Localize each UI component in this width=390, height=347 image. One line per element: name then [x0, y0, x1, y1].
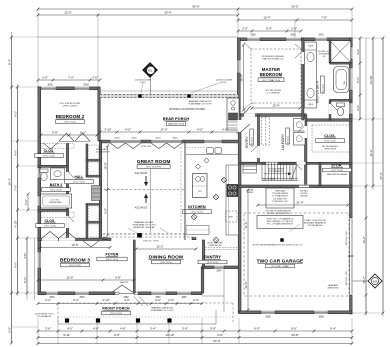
svg-text:(10'-0" CLG): (10'-0" CLG)	[106, 259, 118, 261]
svg-text:3'-6": 3'-6"	[45, 326, 51, 330]
light fixture symbol	[221, 177, 227, 183]
svg-text:2'-10": 2'-10"	[102, 298, 109, 302]
svg-text:2'-2": 2'-2"	[45, 298, 51, 302]
svg-text:2'-6": 2'-6"	[42, 75, 48, 79]
svg-text:WALLS FOR TRAY CLG: WALLS FOR TRAY CLG	[263, 58, 284, 61]
hall closet wall 4	[86, 222, 100, 224]
svg-text:5'-0": 5'-0"	[24, 199, 28, 205]
vault arrow 2 (up)	[145, 196, 147, 203]
door hall/foyer	[83, 241, 99, 247]
master bath bottom wall	[306, 119, 352, 121]
svg-text:REF.: REF.	[229, 217, 234, 219]
svg-text:4'-0": 4'-0"	[197, 127, 203, 131]
wc west wall	[329, 100, 331, 120]
svg-text:54'-0": 54'-0"	[192, 4, 199, 8]
svg-text:HALL: HALL	[75, 175, 84, 179]
svg-text:3'-10": 3'-10"	[104, 127, 111, 131]
kitchen wall counter	[226, 165, 238, 235]
svg-text:12'-0": 12'-0"	[71, 243, 78, 247]
garage top wall opening	[299, 185, 309, 188]
tub window	[349, 68, 353, 90]
svg-text:10" TREAD WIDTH: 10" TREAD WIDTH	[272, 195, 288, 198]
master width dim	[252, 107, 300, 109]
pantry shelf dashed	[205, 247, 238, 249]
porch post B	[96, 318, 100, 322]
garage top wall	[239, 185, 352, 188]
svg-text:(9'-0" CLG): (9'-0" CLG)	[51, 190, 62, 192]
svg-text:7'-8": 7'-8"	[321, 15, 327, 19]
svg-text:10'-10": 10'-10"	[166, 333, 175, 337]
bedroom2 top wall	[38, 87, 100, 90]
refrigerator dashed	[226, 211, 238, 222]
svg-text:3050: 3050	[83, 84, 89, 87]
svg-text:F.F.L. OF MAIN RESIDENCE: F.F.L. OF MAIN RESIDENCE	[267, 223, 294, 226]
extension lines right	[359, 38, 361, 120]
svg-text:3068: 3068	[318, 317, 324, 319]
garage front window 2	[314, 310, 328, 314]
bedroom3 left dims	[26, 238, 28, 293]
porch post A	[65, 318, 69, 322]
svg-text:A03: A03	[373, 280, 378, 283]
svg-text:54'-0": 54'-0"	[213, 339, 220, 343]
kitchen can lights	[204, 158, 209, 163]
beam above dashed	[103, 233, 196, 235]
svg-text:12'-0": 12'-0"	[64, 10, 71, 14]
svg-text:21'-4": 21'-4"	[296, 200, 303, 204]
svg-text:ALL WD SHELVES: ALL WD SHELVES	[322, 145, 338, 148]
svg-text:LAUNDRY: LAUNDRY	[281, 133, 285, 150]
kitchen/great room boundary	[183, 141, 185, 240]
bedroom2 window dims	[38, 79, 100, 81]
porch roof dashed	[58, 302, 233, 304]
svg-text:11'-2": 11'-2"	[244, 221, 248, 228]
svg-text:5'-4": 5'-4"	[266, 26, 272, 30]
svg-text:BEAM ABV. (SEE NOTE): BEAM ABV. (SEE NOTE)	[189, 100, 212, 103]
svg-text:FOYER: FOYER	[106, 253, 119, 257]
svg-text:ENTRY: ENTRY	[245, 136, 249, 148]
dining width dim	[136, 248, 196, 250]
porch entry door	[238, 120, 242, 132]
svg-text:20'-4": 20'-4"	[164, 10, 171, 14]
garage front window 1	[261, 310, 275, 314]
svg-text:(9'-0" CLG HT): (9'-0" CLG HT)	[146, 167, 161, 169]
garage right dims	[365, 186, 367, 313]
svg-text:20'-0": 20'-0"	[291, 4, 298, 8]
svg-text:5'-6": 5'-6"	[182, 326, 188, 330]
svg-text:4 PED. DRS: 4 PED. DRS	[141, 146, 152, 148]
svg-text:8'-4": 8'-4"	[7, 59, 11, 65]
svg-text:(SEE NOTE): (SEE NOTE)	[328, 288, 339, 290]
svg-text:BEAM ABV. HDR ABV.: BEAM ABV. HDR ABV.	[134, 221, 154, 224]
dining front window 1	[151, 291, 166, 295]
svg-text:6'-6": 6'-6"	[291, 326, 297, 330]
svg-text:3'-8": 3'-8"	[210, 326, 216, 330]
svg-text:(9'-0" CLG): (9'-0" CLG)	[192, 212, 203, 214]
svg-text:4'-0": 4'-0"	[356, 105, 360, 111]
closet shelf dashed top	[312, 124, 350, 126]
svg-text:(9'-0" CLG): (9'-0" CLG)	[44, 156, 55, 158]
svg-text:3050: 3050	[181, 297, 187, 299]
svg-text:(TYP): (TYP)	[140, 82, 146, 84]
column 6x6 great room	[137, 233, 142, 238]
svg-text:ADEQUATE HEADRM AT: ADEQUATE HEADRM AT	[304, 222, 327, 225]
bottom overall dim	[38, 343, 352, 345]
svg-text:47'-4": 47'-4"	[379, 172, 383, 179]
svg-text:13 EQUAL RISERS: 13 EQUAL RISERS	[272, 192, 289, 195]
entry laundry top wall / master bottom	[238, 114, 306, 117]
svg-text:3'-0": 3'-0"	[124, 298, 130, 302]
svg-text:TOTAL RISE 7 7/8": TOTAL RISE 7 7/8"	[272, 200, 288, 203]
svg-text:2'-6": 2'-6"	[291, 26, 297, 30]
svg-text:(10'-0" TRAY CLG): (10'-0" TRAY CLG)	[262, 79, 281, 82]
svg-text:OUTLINE OF STAIRS ABOVE: OUTLINE OF STAIRS ABOVE	[265, 210, 291, 213]
extension lines bottom	[37, 318, 39, 344]
ext line	[18, 165, 39, 167]
master interior dim	[243, 45, 245, 110]
hall west wall	[66, 141, 68, 239]
svg-text:6X6 COL. (TYP.): 6X6 COL. (TYP.)	[143, 240, 159, 242]
rear wall great room/kitchen	[100, 140, 240, 143]
svg-text:3 EQUAL: 3 EQUAL	[246, 189, 253, 192]
entry steps to garage	[243, 162, 257, 164]
bedroom3 side window	[37, 252, 41, 268]
shower window	[349, 47, 353, 59]
svg-text:3050: 3050	[156, 138, 162, 140]
section marker 601 top	[143, 63, 158, 78]
svg-text:PLMB BEAM CUT TO FIT: PLMB BEAM CUT TO FIT	[188, 103, 212, 106]
attic outline dashed	[244, 213, 349, 296]
svg-text:FRONT PORCH: FRONT PORCH	[102, 307, 130, 311]
svg-text:7'-0": 7'-0"	[68, 75, 74, 79]
freestanding tub	[334, 67, 350, 93]
svg-text:BEDROOM: BEDROOM	[260, 72, 283, 77]
garage front wall	[239, 311, 352, 314]
svg-text:BEAM ABV: BEAM ABV	[328, 284, 338, 287]
garage interior dim	[247, 190, 249, 310]
bedroom2 right wall	[98, 87, 100, 141]
rear porch beam (dashed)	[100, 94, 238, 98]
svg-text:6'-8": 6'-8"	[114, 333, 120, 337]
corner shower	[330, 41, 351, 63]
svg-text:(9-0 CLG): (9-0 CLG)	[252, 137, 254, 146]
pantry window	[214, 265, 224, 269]
tray corner diagonal NW	[244, 43, 251, 50]
entry/laundry divider	[258, 115, 260, 163]
svg-text:5'-6": 5'-6"	[23, 277, 27, 283]
wall	[202, 240, 204, 267]
svg-text:9'-0": 9'-0"	[103, 208, 107, 214]
garage beam post	[280, 238, 283, 241]
svg-text:10'-0": 10'-0"	[103, 162, 107, 169]
section line through great room	[150, 169, 152, 233]
section marker A03 right	[352, 280, 368, 282]
svg-text:2'-6": 2'-6"	[155, 298, 161, 302]
svg-text:2650: 2650	[250, 35, 256, 37]
hall closet shelf wall	[86, 160, 100, 162]
bedroom3 front window 2	[75, 291, 89, 295]
svg-text:5'-8": 5'-8"	[115, 275, 121, 279]
svg-text:13'-10": 13'-10"	[369, 76, 373, 85]
svg-text:CLOS.: CLOS.	[45, 219, 56, 223]
window	[204, 140, 222, 144]
svg-text:(9'-0" CLG): (9'-0" CLG)	[74, 182, 85, 184]
svg-text:4'-2": 4'-2"	[356, 49, 360, 55]
shower west wall	[329, 40, 331, 63]
door laundry to stor landing	[297, 162, 306, 165]
svg-text:SLOPED CEILING BELOW: SLOPED CEILING BELOW	[266, 213, 289, 215]
svg-text:CLOS.: CLOS.	[44, 149, 55, 153]
svg-text:16'-4": 16'-4"	[239, 74, 243, 81]
kitchen sink	[207, 148, 214, 154]
laundry/closet east wall	[305, 115, 307, 186]
svg-text:COLUMN ABOVE: COLUMN ABOVE	[37, 315, 52, 318]
front wall main	[38, 292, 202, 295]
svg-text:(PLMB BEAM CUT TO FIT): (PLMB BEAM CUT TO FIT)	[132, 224, 155, 227]
svg-text:10" TYP. RISER: 10" TYP. RISER	[263, 178, 276, 180]
svg-text:13'-4": 13'-4"	[272, 103, 279, 107]
svg-text:3'-8": 3'-8"	[217, 333, 223, 337]
tray ceiling dashed	[251, 49, 301, 103]
extension lines left	[11, 32, 13, 343]
svg-text:NOTE: PRE-ENGINEERED FLOOR JOI: NOTE: PRE-ENGINEERED FLOOR JOISTS @ 24" …	[253, 245, 304, 247]
right exterior wall lower	[350, 295, 353, 314]
svg-text:CLOS.: CLOS.	[324, 134, 335, 138]
svg-text:OPENING AT 10 BLW A.F.: OPENING AT 10 BLW A.F.	[133, 226, 156, 229]
washer dryer	[294, 119, 306, 132]
master/bath divider	[302, 38, 304, 120]
right overall dim	[382, 38, 384, 313]
left room dims	[17, 87, 19, 293]
master wing dims	[238, 19, 352, 21]
pantry front wall	[202, 266, 240, 269]
porch dims	[100, 131, 238, 133]
svg-text:601: 601	[148, 68, 153, 72]
extension lines top	[37, 9, 39, 87]
master window 1	[247, 37, 260, 41]
ext line	[18, 209, 39, 211]
master window 2	[286, 37, 301, 41]
svg-text:12'-4": 12'-4"	[263, 15, 270, 19]
front wall dims	[38, 303, 202, 305]
master door from hall	[244, 114, 255, 117]
bath dims right	[359, 38, 361, 119]
svg-text:6'-4": 6'-4"	[330, 326, 336, 330]
svg-text:LINEN: LINEN	[308, 104, 314, 106]
svg-text:2'-6": 2'-6"	[242, 26, 248, 30]
hall closet wall 3	[86, 204, 100, 206]
porch post C	[136, 318, 140, 322]
svg-text:I.L.O. WINDOW: I.L.O. WINDOW	[266, 93, 280, 95]
front door with sidelites	[115, 292, 138, 294]
svg-text:OPTIONAL OUTDOOR KITCHEN: OPTIONAL OUTDOOR KITCHEN	[169, 108, 205, 111]
bath window top	[315, 37, 327, 41]
great room window group 2	[151, 140, 182, 144]
doors bedroom2 (double swing)	[59, 140, 90, 143]
svg-text:OPEN BELOW: OPEN BELOW	[209, 245, 222, 247]
overall width dim	[38, 8, 352, 10]
svg-text:4'-0": 4'-0"	[67, 326, 73, 330]
porch slab right edge	[215, 310, 217, 324]
bedroom3 front window 1	[46, 291, 58, 295]
svg-text:5'-6": 5'-6"	[356, 77, 360, 83]
closet shelf dashed left	[311, 125, 313, 152]
svg-text:3068 DR.: 3068 DR.	[120, 282, 129, 284]
hall closet side wall b	[86, 204, 88, 238]
right exterior wall upper	[349, 38, 352, 120]
svg-text:17'-4": 17'-4"	[160, 127, 167, 131]
bedroom3 dim	[38, 279, 134, 281]
right dims	[372, 38, 374, 186]
svg-text:(9'-0" CLG): (9'-0" CLG)	[65, 122, 76, 124]
svg-text:9'-2": 9'-2"	[13, 111, 17, 117]
great room west wall	[99, 141, 101, 239]
vault ridge dashed line	[104, 189, 186, 191]
svg-text:START VAULT: START VAULT	[96, 148, 109, 151]
svg-text:4'-0": 4'-0"	[125, 127, 131, 131]
casement marks 2	[151, 143, 182, 149]
base counter south	[186, 226, 209, 235]
master wing top wall	[238, 38, 352, 41]
wall	[319, 163, 321, 186]
garage overhead door openings right wall	[349, 219, 353, 294]
svg-text:PANTRY: PANTRY	[204, 255, 221, 260]
porch post D	[167, 318, 171, 322]
svg-text:(9'-0" CLG): (9'-0" CLG)	[332, 170, 343, 172]
shaded linen chase	[92, 186, 101, 201]
closet2 shelf dashed	[41, 212, 74, 218]
bedroom3 inner dim	[40, 247, 110, 249]
pantry side wall	[201, 267, 204, 293]
svg-text:(PLMB BEAM CUT TO FIT): (PLMB BEAM CUT TO FIT)	[150, 309, 173, 312]
master west window	[237, 60, 241, 73]
master window dims	[238, 30, 301, 32]
door clos1 (swing from hall wall)	[43, 143, 58, 149]
svg-text:OPEN LIGHTS: OPEN LIGHTS	[324, 149, 337, 151]
casement marks 1	[110, 143, 141, 149]
svg-text:W/ OPEN: W/ OPEN	[301, 193, 309, 195]
svg-text:4/12 VAULT: 4/12 VAULT	[135, 172, 148, 175]
laundry rod dashed	[262, 117, 270, 145]
doors bedroom3 wall	[42, 238, 58, 241]
svg-text:(9'-0" CLG): (9'-0" CLG)	[325, 141, 336, 143]
svg-text:@ 10 PLATE HT: @ 10 PLATE HT	[96, 151, 111, 154]
svg-text:9'-11": 9'-11"	[63, 333, 70, 337]
svg-text:6'-2": 6'-2"	[80, 130, 86, 134]
svg-text:(9'-0" CLG): (9'-0" CLG)	[45, 226, 56, 228]
svg-text:(9'-0" CLG): (9'-0" CLG)	[161, 262, 172, 264]
svg-text:OPNG. CLSETS: OPNG. CLSETS	[63, 106, 78, 108]
svg-text:16'-7": 16'-7"	[362, 276, 366, 283]
svg-text:3050: 3050	[290, 35, 296, 37]
left exterior wall	[38, 87, 41, 294]
svg-text:SAME LEVEL AS GARAGE: SAME LEVEL AS GARAGE	[327, 173, 349, 176]
svg-text:8070 O.H. DR.: 8070 O.H. DR.	[346, 270, 348, 285]
eave line rear	[38, 36, 238, 38]
great room interior dims	[107, 146, 109, 235]
closet shelf dashed bottom	[312, 151, 350, 153]
door bath2	[66, 172, 69, 184]
bedroom2 window 2	[75, 86, 90, 90]
svg-text:3050: 3050	[47, 84, 53, 87]
wall	[133, 240, 135, 293]
top-left dims	[38, 14, 238, 16]
laundry south wall	[240, 162, 306, 164]
svg-text:(9-0 CLG): (9-0 CLG)	[288, 136, 290, 145]
bath2 vanity	[51, 168, 65, 180]
bath2/closet2 divider	[38, 209, 67, 211]
svg-text:7'-6": 7'-6"	[13, 185, 17, 191]
svg-text:(4" CONC. SLAB): (4" CONC. SLAB)	[271, 265, 289, 268]
svg-text:BEDROOM 2: BEDROOM 2	[56, 114, 85, 119]
porch post 2	[187, 94, 190, 97]
svg-text:5'-4": 5'-4"	[73, 298, 79, 302]
porch post 1	[138, 94, 141, 97]
svg-text:REAR PORCH: REAR PORCH	[163, 117, 190, 121]
wall stub dining east	[192, 238, 196, 240]
svg-text:3050: 3050	[79, 297, 85, 299]
svg-text:(TYP): (TYP)	[221, 82, 227, 84]
tub dim	[27, 194, 29, 210]
svg-text:3050: 3050	[173, 138, 179, 140]
left overall dims	[11, 37, 13, 343]
svg-text:UPSTRS ABOVE: UPSTRS ABOVE	[308, 224, 323, 227]
svg-text:3050: 3050	[115, 138, 121, 140]
svg-text:4'-10": 4'-10"	[13, 220, 17, 227]
svg-text:STAIR DATA:: STAIR DATA:	[275, 190, 286, 193]
svg-text:2'-8": 2'-8"	[7, 327, 11, 333]
great room window group 1	[110, 140, 141, 144]
wc north wall	[330, 99, 351, 101]
svg-text:2'-6": 2'-6"	[193, 298, 199, 302]
closet/bath2 divider	[38, 165, 67, 167]
door clos2	[66, 216, 69, 228]
stair data box	[266, 188, 294, 208]
svg-text:LINEN: LINEN	[308, 46, 314, 48]
svg-text:(VAULTED CLG): (VAULTED CLG)	[168, 123, 185, 126]
svg-text:NOTE: F.F.L. OF GARAGE TO: NOTE: F.F.L. OF GARAGE TO	[266, 217, 294, 220]
svg-text:4/12 VAULT: 4/12 VAULT	[135, 207, 148, 210]
kitchen island	[193, 174, 208, 198]
range	[227, 185, 238, 197]
svg-text:4' WALL TO ALLOW FOR: 4' WALL TO ALLOW FOR	[304, 219, 326, 222]
svg-text:4'-8": 4'-8"	[93, 326, 99, 330]
svg-text:20'-8": 20'-8"	[291, 333, 298, 337]
bath2 toilet	[40, 169, 48, 173]
svg-text:5'-8": 5'-8"	[52, 130, 58, 134]
garage lowered note box	[257, 216, 303, 229]
svg-text:9'-6": 9'-6"	[13, 262, 17, 268]
svg-text:BATH 2: BATH 2	[50, 183, 63, 187]
wall stub foyer west	[103, 238, 107, 240]
svg-text:34'-4": 34'-4"	[7, 178, 11, 185]
svg-text:11'-2": 11'-2"	[369, 149, 373, 156]
tub window bath2	[37, 196, 41, 206]
hall closet shelves dashed	[88, 145, 99, 159]
svg-text:12'-2": 12'-2"	[156, 244, 163, 248]
svg-text:4'-0": 4'-0"	[23, 253, 27, 259]
svg-text:2'-0": 2'-0"	[168, 298, 174, 302]
svg-text:2030: 2030	[318, 35, 324, 37]
stairs down	[261, 163, 263, 181]
outdoor kitchen counter	[227, 98, 239, 130]
light fixture symbol	[213, 194, 219, 200]
svg-text:(9'-0" CLG): (9'-0" CLG)	[111, 313, 122, 315]
closet shelf dashed	[41, 144, 74, 149]
rear porch roof edge	[100, 90, 238, 92]
shower south wall	[330, 62, 351, 64]
light fixture symbol	[213, 237, 219, 243]
svg-text:5'-4": 5'-4"	[150, 326, 156, 330]
